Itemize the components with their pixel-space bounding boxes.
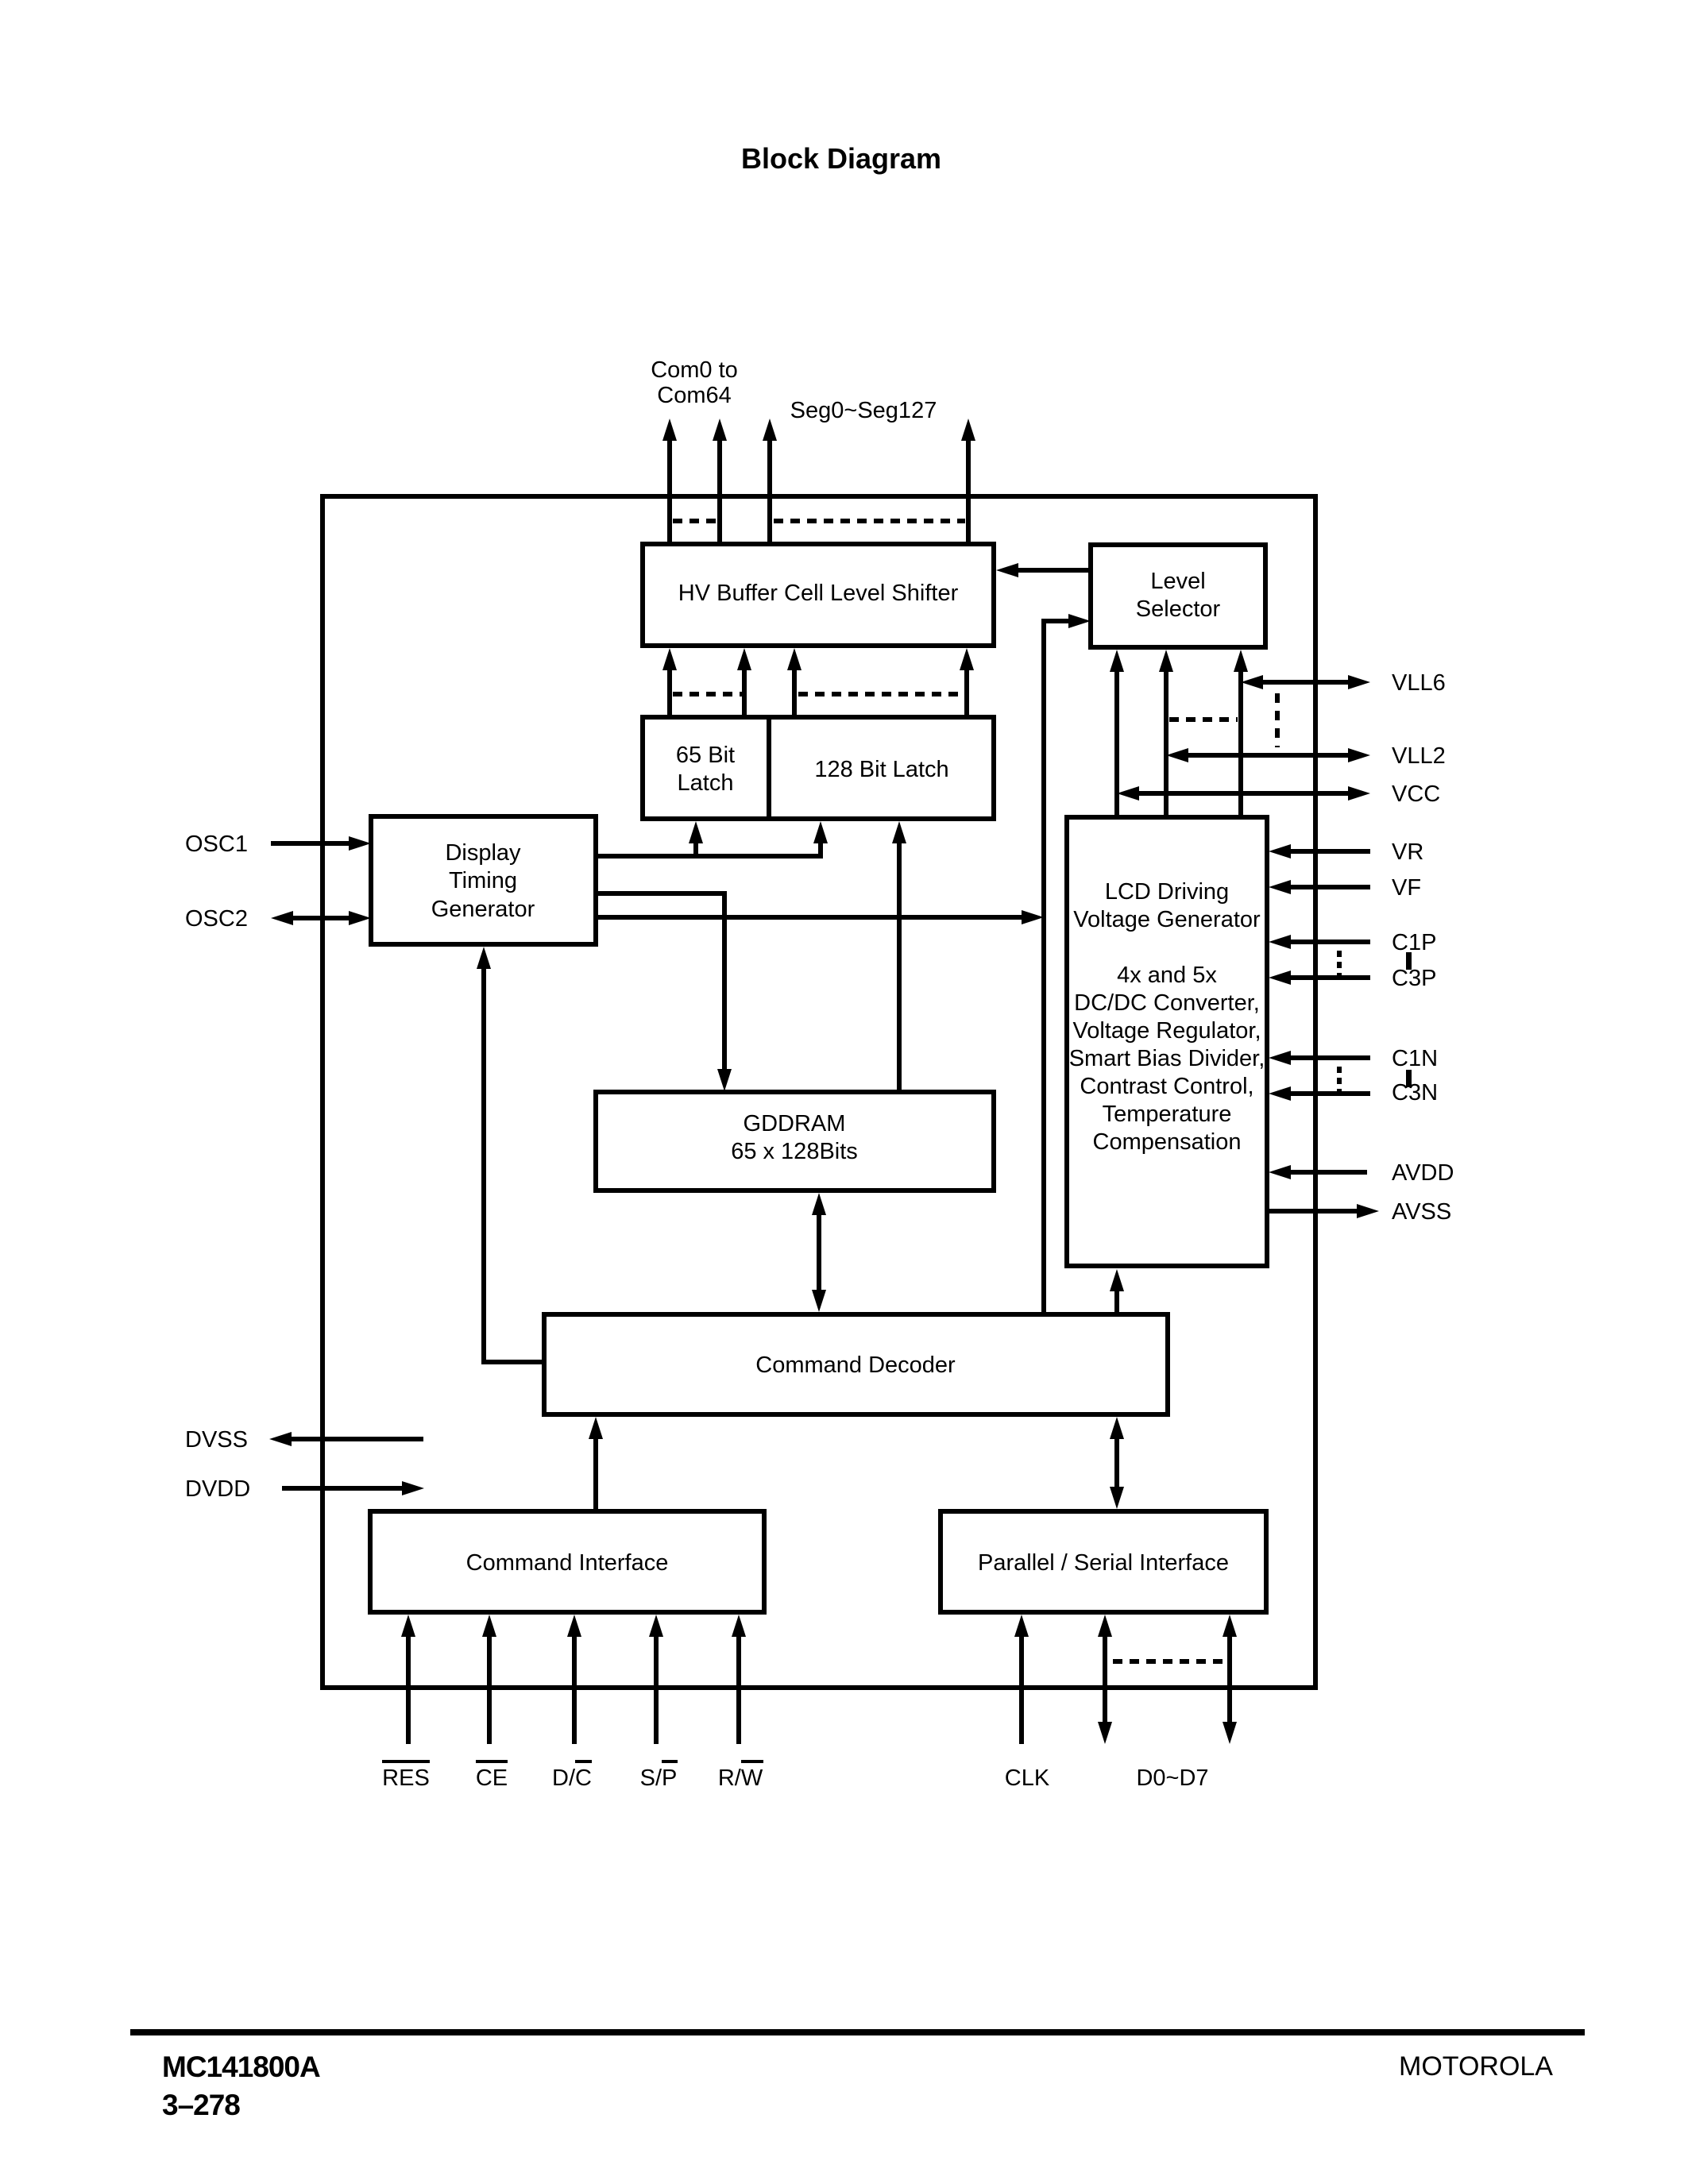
svg-text:MOTOROLA: MOTOROLA: [1399, 2051, 1553, 2082]
svg-text:CLK: CLK: [1005, 1765, 1050, 1791]
wire dashed ellipsis latch-HV right: [798, 692, 964, 696]
block Command Interface: [370, 1511, 764, 1612]
svg-text:R/W: R/W: [718, 1765, 763, 1791]
node R/W label with overline on W: [718, 1761, 763, 1791]
wire OSC2 bidirectional: [293, 916, 349, 920]
wire latch to HV buffer arrow 1: [667, 670, 672, 717]
node D/C label with overline on C: [552, 1761, 592, 1791]
svg-text:AVDD: AVDD: [1392, 1160, 1454, 1186]
wire GDDRAM to command decoder bidirectional: [817, 1215, 821, 1290]
svg-text:GDDRAM: GDDRAM: [744, 1111, 846, 1136]
wire C1N input: [1291, 1055, 1370, 1060]
footer rule: [130, 2029, 1585, 2035]
svg-text:CE: CE: [476, 1765, 508, 1791]
svg-text:AVSS: AVSS: [1392, 1199, 1451, 1225]
wire command interface to command decoder: [593, 1439, 598, 1511]
wire DVDD input: [282, 1486, 402, 1491]
svg-text:Command Interface: Command Interface: [466, 1550, 669, 1576]
wire Com output arrow 1: [667, 441, 672, 544]
wire dashed ellipsis between Com outputs: [673, 519, 720, 523]
block Parallel / Serial Interface: [941, 1511, 1266, 1612]
block Display Timing Generator: [371, 816, 596, 944]
wire AVSS output: [1266, 1209, 1357, 1214]
svg-text:Compensation: Compensation: [1093, 1129, 1242, 1155]
svg-text:DVSS: DVSS: [185, 1427, 248, 1453]
svg-text:3–278: 3–278: [162, 2089, 240, 2121]
svg-text:VCC: VCC: [1392, 781, 1440, 807]
wire dashed ellipsis between level selector feeds: [1169, 717, 1238, 722]
chip outline: [323, 496, 1315, 1688]
svg-text:Level: Level: [1150, 569, 1205, 594]
wire latch to HV buffer arrow 2: [742, 670, 747, 717]
svg-text:Com0 to: Com0 to: [651, 357, 738, 383]
wire VLL6 bidirectional: [1263, 680, 1348, 685]
wire dashed ellipsis data bus: [1113, 1659, 1223, 1664]
wire Seg output arrow 2: [966, 441, 971, 544]
wire command decoder to level selector: [1044, 621, 1068, 1314]
wire parallel serial interface to command decoder bidirectional: [1114, 1439, 1119, 1487]
wire Com output arrow 2: [717, 441, 722, 544]
svg-text:HV Buffer Cell Level Shifter: HV Buffer Cell Level Shifter: [678, 581, 959, 606]
wire dashed ellipsis between Seg outputs: [774, 519, 965, 523]
block 65 Bit Latch: [643, 717, 769, 819]
wire D0 bidirectional: [1103, 1637, 1107, 1722]
svg-text:DC/DC Converter,: DC/DC Converter,: [1074, 990, 1260, 1016]
svg-text:4x and 5x: 4x and 5x: [1117, 963, 1217, 988]
wire DTG to GDDRAM: [596, 893, 724, 1069]
wire command decoder to LCD driving voltage generator: [1114, 1291, 1119, 1314]
wire dashed ellipsis VLL levels: [1275, 693, 1280, 747]
svg-text:Voltage Regulator,: Voltage Regulator,: [1072, 1018, 1261, 1044]
wire GDDRAM to 128 bit latch: [897, 843, 902, 1092]
wire LCD to level selector 3: [1238, 672, 1243, 817]
svg-text:D/C: D/C: [552, 1765, 592, 1791]
svg-text:Temperature: Temperature: [1103, 1102, 1232, 1127]
svg-text:65 x 128Bits: 65 x 128Bits: [731, 1139, 858, 1164]
wire RES input: [406, 1637, 411, 1744]
svg-text:C1P: C1P: [1392, 930, 1436, 955]
wire CE input: [487, 1637, 492, 1744]
wire DTG branch to 65 bit latch: [693, 843, 698, 856]
node S/P label with overline on P: [640, 1761, 678, 1791]
wire VF input: [1291, 885, 1370, 889]
svg-text:Block Diagram: Block Diagram: [741, 142, 941, 175]
svg-text:Timing: Timing: [449, 868, 517, 893]
svg-text:S/P: S/P: [640, 1765, 678, 1791]
node RES label with overline: [382, 1761, 430, 1791]
block HV Buffer Cell Level Shifter: [643, 544, 994, 646]
wire DTG to 128 bit latch: [596, 843, 821, 856]
block GDDRAM 65 x 128Bits: [596, 1092, 994, 1190]
svg-text:Display: Display: [445, 840, 521, 866]
svg-text:RES: RES: [382, 1765, 430, 1791]
wire Seg output arrow 1: [767, 441, 772, 544]
svg-text:DVDD: DVDD: [185, 1476, 250, 1502]
node C1P-C3P label bar: [1406, 952, 1412, 970]
svg-text:VR: VR: [1392, 839, 1423, 865]
wire dashed ellipsis C1P-C3P: [1337, 951, 1342, 975]
wire VLL2 bidirectional: [1188, 753, 1348, 758]
svg-text:Contrast Control,: Contrast Control,: [1080, 1074, 1253, 1099]
svg-text:C1N: C1N: [1392, 1046, 1438, 1071]
wire VCC bidirectional: [1139, 791, 1348, 796]
block Command Decoder: [544, 1314, 1168, 1414]
node C1N-C3N label bar: [1406, 1070, 1412, 1087]
wire D7 bidirectional: [1227, 1637, 1232, 1722]
wire AVDD input: [1291, 1170, 1367, 1175]
svg-text:OSC1: OSC1: [185, 832, 248, 857]
svg-text:VLL6: VLL6: [1392, 670, 1446, 696]
wire DVSS output: [292, 1437, 423, 1441]
wire Level Selector to HV Buffer: [1018, 568, 1091, 573]
svg-text:Com64: Com64: [657, 383, 732, 408]
wire DTG to level selector net: [596, 915, 1022, 920]
wire C3N input: [1291, 1091, 1370, 1096]
svg-text:Latch: Latch: [678, 770, 734, 796]
svg-text:MC141800A: MC141800A: [162, 2051, 320, 2083]
wire dashed ellipsis latch-HV left: [673, 692, 744, 696]
svg-text:Generator: Generator: [431, 897, 535, 922]
block LCD Driving Voltage Generator: [1067, 817, 1267, 1266]
svg-text:Smart Bias Divider,: Smart Bias Divider,: [1069, 1046, 1265, 1071]
wire LCD to level selector 1: [1114, 672, 1119, 817]
svg-text:C3N: C3N: [1392, 1080, 1438, 1106]
svg-text:Voltage Generator: Voltage Generator: [1073, 907, 1261, 932]
svg-text:VLL2: VLL2: [1392, 743, 1446, 769]
node CE label with overline: [476, 1761, 508, 1791]
wire C3P input: [1291, 975, 1370, 980]
svg-text:C3P: C3P: [1392, 966, 1436, 991]
svg-text:Selector: Selector: [1136, 596, 1221, 622]
wire DC input: [572, 1637, 577, 1744]
wire command decoder to DTG: [484, 969, 544, 1362]
svg-text:Seg0~Seg127: Seg0~Seg127: [790, 398, 937, 423]
svg-text:65 Bit: 65 Bit: [676, 743, 735, 768]
svg-text:Command Decoder: Command Decoder: [755, 1352, 956, 1378]
wire LCD to level selector 2: [1164, 672, 1168, 817]
wire CLK input: [1019, 1637, 1024, 1744]
wire VR input: [1291, 849, 1370, 854]
svg-text:128 Bit Latch: 128 Bit Latch: [814, 757, 948, 782]
wire latch to HV buffer arrow 3: [792, 670, 797, 717]
wire SP input: [654, 1637, 659, 1744]
wire RW input: [736, 1637, 741, 1744]
svg-text:Parallel / Serial Interface: Parallel / Serial Interface: [978, 1550, 1229, 1576]
svg-text:VF: VF: [1392, 875, 1421, 901]
wire C1P input: [1291, 940, 1370, 944]
block 128 Bit Latch: [769, 717, 994, 819]
wire OSC1 input: [271, 841, 349, 846]
svg-text:LCD Driving: LCD Driving: [1105, 879, 1229, 905]
block Level Selector: [1091, 545, 1265, 647]
svg-text:D0~D7: D0~D7: [1136, 1765, 1208, 1791]
wire latch to HV buffer arrow 4: [964, 670, 969, 717]
svg-text:OSC2: OSC2: [185, 906, 248, 932]
wire dashed ellipsis C1N-C3N: [1337, 1067, 1342, 1091]
